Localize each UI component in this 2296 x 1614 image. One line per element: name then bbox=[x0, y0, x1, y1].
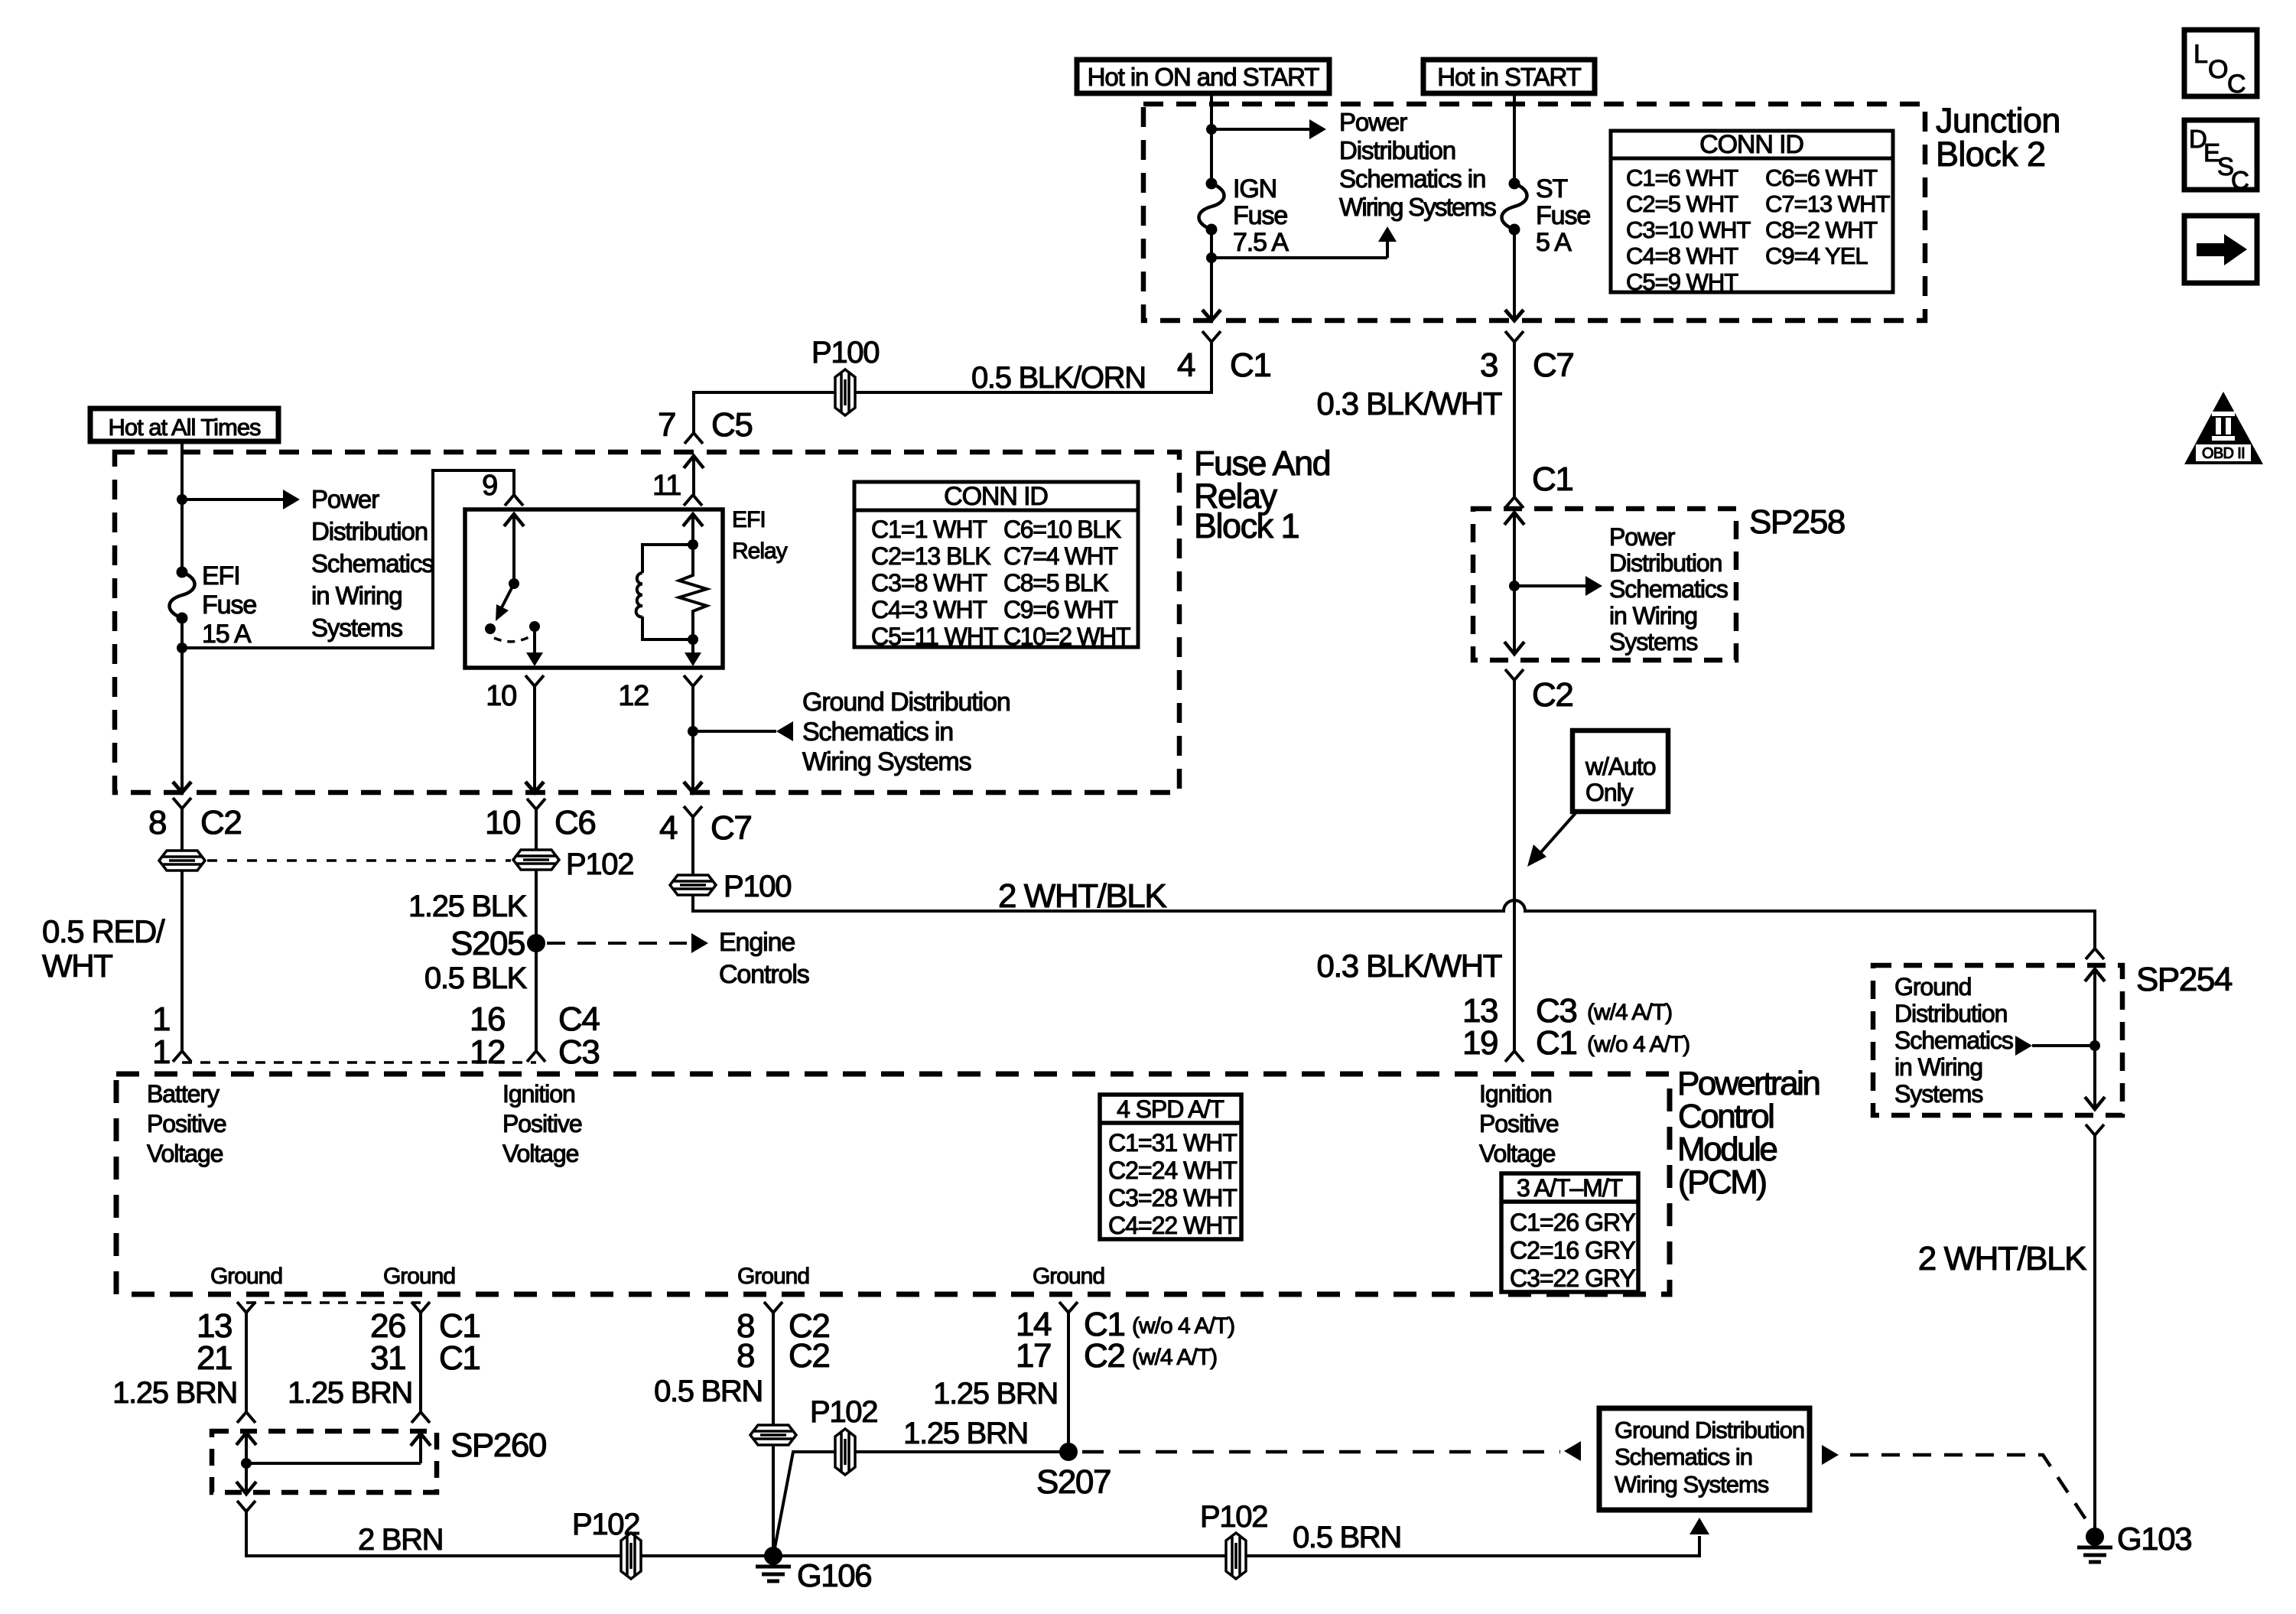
svg-text:P102: P102 bbox=[1200, 1500, 1267, 1534]
svg-text:3: 3 bbox=[1480, 347, 1498, 384]
svg-text:Schematics in: Schematics in bbox=[1339, 164, 1485, 193]
wire: EFI fuse output down to 8 C2 bbox=[180, 618, 184, 792]
dashed connector link P102-P102 bbox=[207, 859, 511, 862]
wire: 0.3 BLK/WHT from 3 C7 down to SP258 bbox=[1513, 342, 1516, 497]
svg-text:EFI: EFI bbox=[202, 561, 240, 591]
dashed arrow: S205 to Engine Controls bbox=[547, 942, 687, 945]
connector face dashed line (PCM C3/C4) bbox=[182, 1061, 536, 1064]
svg-text:C4=22 WHT: C4=22 WHT bbox=[1108, 1212, 1237, 1239]
svg-text:Schematics in: Schematics in bbox=[802, 718, 953, 747]
wire through SP260 (left) bbox=[236, 1433, 256, 1445]
svg-text:Block 1: Block 1 bbox=[1194, 506, 1299, 545]
inline connector P102 (ignition wire) bbox=[513, 850, 559, 870]
svg-text:2 WHT/BLK: 2 WHT/BLK bbox=[998, 877, 1166, 915]
relay switch pivot bbox=[509, 578, 519, 589]
svg-text:2 WHT/BLK: 2 WHT/BLK bbox=[1918, 1240, 2086, 1277]
svg-text:C3=8 WHT: C3=8 WHT bbox=[871, 569, 987, 597]
wire: pin 12 down to block exit (4 C7) bbox=[691, 686, 694, 792]
PCM ground pin 8/8 C2 connector bbox=[764, 1302, 782, 1313]
dashed wire: ground distribution box to G103 bbox=[1850, 1455, 2092, 1528]
inline connector P102 (battery wire) bbox=[159, 851, 205, 870]
feed box: Hot in START bbox=[1423, 60, 1595, 93]
svg-text:G103: G103 bbox=[2117, 1521, 2191, 1557]
connector pin 4 C7 bbox=[684, 806, 702, 817]
svg-text:Fuse: Fuse bbox=[1536, 201, 1590, 230]
svg-text:(w/4 A/T): (w/4 A/T) bbox=[1132, 1345, 1217, 1370]
svg-text:in Wiring: in Wiring bbox=[1609, 602, 1697, 630]
svg-text:12: 12 bbox=[618, 680, 649, 712]
connector pin 12 of EFI relay bbox=[684, 675, 702, 686]
feed box: Hot in ON and START bbox=[1077, 60, 1329, 93]
inline connector P100 (0.5 BLK/ORN) bbox=[835, 369, 855, 415]
connector pin 7 C5 bbox=[685, 433, 703, 444]
svg-text:Distribution: Distribution bbox=[1609, 549, 1722, 577]
connector pin 8 C2 bbox=[173, 798, 191, 809]
svg-text:Power: Power bbox=[1339, 108, 1407, 136]
svg-text:C2=13 BLK: C2=13 BLK bbox=[871, 542, 990, 570]
svg-text:C8=5 BLK: C8=5 BLK bbox=[1003, 569, 1108, 597]
wire: 2 BRN from SP260 to G106 bbox=[246, 1511, 773, 1556]
svg-text:OBD II: OBD II bbox=[2202, 445, 2245, 462]
svg-text:C3=22 GRY: C3=22 GRY bbox=[1510, 1264, 1636, 1292]
svg-text:0.5 BRN: 0.5 BRN bbox=[1293, 1521, 1401, 1554]
svg-text:S205: S205 bbox=[450, 925, 525, 962]
wire exit arrow at 4 C7 bbox=[684, 782, 702, 792]
relay switch output wire to pin 10 bbox=[533, 626, 536, 664]
wire: 1.25 BRN ground (26/31) bbox=[419, 1313, 422, 1412]
svg-text:P102: P102 bbox=[572, 1508, 639, 1541]
wire through SP254 bbox=[2085, 969, 2105, 981]
svg-text:Block 2: Block 2 bbox=[1936, 135, 2045, 174]
svg-text:Schematics in: Schematics in bbox=[1615, 1443, 1752, 1470]
svg-text:P100: P100 bbox=[811, 336, 879, 369]
svg-text:Systems: Systems bbox=[311, 613, 402, 642]
svg-text:Ground: Ground bbox=[210, 1264, 282, 1289]
wire exits block at 8 C2 bbox=[173, 782, 191, 792]
wire: 7 C5 into fuse and relay block 1 (to relay pin 11) bbox=[684, 456, 704, 468]
svg-text:3 A/T–M/T: 3 A/T–M/T bbox=[1517, 1174, 1623, 1202]
node: ground distribution branch dot bbox=[688, 726, 698, 737]
connector below SP254 bbox=[2086, 1124, 2104, 1135]
svg-text:C1=26 GRY: C1=26 GRY bbox=[1510, 1209, 1636, 1236]
splice SP260 dashed box bbox=[212, 1431, 437, 1492]
wire: 1.25 BRN from S207 left to G106 (via P102) bbox=[773, 1452, 1068, 1556]
svg-text:12: 12 bbox=[470, 1033, 505, 1071]
svg-text:0.3 BLK/WHT: 0.3 BLK/WHT bbox=[1317, 386, 1502, 421]
wire: ST fuse output exits junction block 2 bbox=[1513, 229, 1516, 321]
svg-text:C2=16 GRY: C2=16 GRY bbox=[1510, 1237, 1636, 1264]
table: 4 SPD A/T bbox=[1100, 1095, 1241, 1239]
svg-text:0.5 BLK/ORN: 0.5 BLK/ORN bbox=[971, 361, 1146, 395]
svg-text:2 BRN: 2 BRN bbox=[358, 1523, 443, 1557]
wire: IGN feed from Hot in ON and START bbox=[1210, 93, 1213, 184]
svg-text:Wiring Systems: Wiring Systems bbox=[1339, 193, 1496, 221]
relay resistor bbox=[679, 545, 707, 639]
svg-text:C3: C3 bbox=[558, 1033, 599, 1071]
splice SP258 dashed box bbox=[1473, 509, 1736, 660]
dashed wire: S207 to ground distribution box bbox=[1082, 1450, 1560, 1454]
svg-text:C1=6 WHT: C1=6 WHT bbox=[1626, 164, 1738, 191]
svg-text:Hot in START: Hot in START bbox=[1437, 63, 1581, 91]
svg-text:9: 9 bbox=[482, 470, 497, 502]
svg-text:G106: G106 bbox=[797, 1557, 871, 1593]
wire pin 11 into relay bbox=[683, 514, 703, 526]
svg-text:C7: C7 bbox=[1533, 347, 1573, 384]
svg-text:C4=3 WHT: C4=3 WHT bbox=[871, 596, 987, 623]
svg-text:Distribution: Distribution bbox=[311, 517, 428, 545]
svg-text:19: 19 bbox=[1462, 1024, 1498, 1062]
icon: arrow box bbox=[2184, 216, 2257, 283]
node: SP254 splice dot bbox=[2089, 1040, 2100, 1051]
inline connector P102 (0.5 BRN) bbox=[750, 1425, 796, 1445]
svg-text:IGN: IGN bbox=[1233, 174, 1276, 203]
svg-text:1: 1 bbox=[152, 1033, 170, 1071]
svg-text:Hot in ON and START: Hot in ON and START bbox=[1088, 63, 1320, 91]
wire: 2 WHT/BLK down to G103 bbox=[2093, 1135, 2096, 1537]
svg-text:Hot at All Times: Hot at All Times bbox=[108, 414, 261, 441]
junction block 2 dashed outline bbox=[1143, 104, 1925, 321]
wire: pin 10 down, exits block (to C6) bbox=[533, 686, 536, 792]
svg-text:(w/4 A/T): (w/4 A/T) bbox=[1587, 1000, 1672, 1025]
svg-text:10: 10 bbox=[486, 680, 516, 712]
svg-text:C7: C7 bbox=[711, 809, 751, 847]
svg-text:Schematics: Schematics bbox=[311, 549, 434, 578]
svg-text:O: O bbox=[2208, 55, 2227, 84]
arrow from w/Auto Only to wire bbox=[1540, 813, 1576, 853]
wire: 0.5 RED/WHT battery positive to PCM bbox=[180, 809, 184, 1051]
svg-text:1.25 BRN: 1.25 BRN bbox=[903, 1417, 1028, 1450]
svg-text:WHT: WHT bbox=[42, 948, 112, 984]
conn id table: fuse and relay block 1 bbox=[854, 482, 1138, 647]
svg-text:Wiring Systems: Wiring Systems bbox=[802, 747, 971, 776]
wire: 1.25 BRN ground (13/21) bbox=[245, 1313, 248, 1412]
wire: IGN exit of junction block 2 bbox=[1210, 258, 1213, 321]
connector C1 into SP258 bbox=[1505, 497, 1524, 508]
wire: pin 12 to relay box edge bbox=[691, 639, 694, 664]
svg-text:C2: C2 bbox=[200, 804, 241, 841]
svg-text:Systems: Systems bbox=[1894, 1080, 1982, 1108]
fuse: EFI Fuse 15 A bbox=[177, 567, 188, 578]
svg-text:Voltage: Voltage bbox=[1479, 1140, 1556, 1167]
svg-text:SP254: SP254 bbox=[2136, 961, 2233, 998]
svg-text:Power: Power bbox=[311, 485, 379, 513]
svg-text:Ground: Ground bbox=[1033, 1264, 1104, 1289]
svg-text:C2=24 WHT: C2=24 WHT bbox=[1108, 1157, 1237, 1184]
svg-text:Only: Only bbox=[1585, 779, 1634, 806]
connector pin 10 C6 bbox=[527, 799, 545, 809]
svg-text:C: C bbox=[2227, 70, 2246, 99]
annotation arrow: power distribution schematics (EFI) bbox=[182, 498, 285, 501]
svg-text:(PCM): (PCM) bbox=[1678, 1163, 1766, 1201]
svg-text:C2: C2 bbox=[789, 1337, 829, 1375]
ground G103 bbox=[2086, 1528, 2104, 1546]
svg-text:C2: C2 bbox=[1532, 676, 1572, 714]
PCM ground pin 26/31 connector bbox=[411, 1302, 430, 1313]
connector pin 11 of EFI relay bbox=[684, 495, 702, 506]
svg-text:Control: Control bbox=[1678, 1098, 1773, 1135]
wire: battery feed from Hot at All Times bbox=[180, 441, 184, 572]
svg-text:0.5 RED/: 0.5 RED/ bbox=[42, 913, 165, 949]
svg-text:1.25 BRN: 1.25 BRN bbox=[288, 1376, 412, 1410]
svg-text:C1: C1 bbox=[1532, 460, 1572, 498]
svg-text:Voltage: Voltage bbox=[147, 1140, 223, 1167]
svg-text:P102: P102 bbox=[566, 848, 633, 881]
svg-text:(w/o 4 A/T): (w/o 4 A/T) bbox=[1587, 1032, 1689, 1057]
svg-text:7: 7 bbox=[658, 406, 675, 444]
svg-text:C2=5 WHT: C2=5 WHT bbox=[1626, 190, 1738, 217]
feed box: Hot at All Times bbox=[90, 408, 278, 441]
relay switch output contact bbox=[529, 621, 540, 632]
svg-text:4 SPD A/T: 4 SPD A/T bbox=[1117, 1095, 1224, 1123]
svg-text:C4: C4 bbox=[558, 1001, 600, 1038]
fuse: ST Fuse 5 A bbox=[1509, 178, 1520, 190]
relay switch contact (NC) bbox=[485, 623, 496, 634]
svg-text:21: 21 bbox=[197, 1339, 232, 1377]
svg-text:CONN ID: CONN ID bbox=[1699, 130, 1803, 159]
svg-text:C2: C2 bbox=[1084, 1337, 1124, 1375]
svg-text:C7=13 WHT: C7=13 WHT bbox=[1765, 190, 1890, 217]
svg-text:1: 1 bbox=[152, 1001, 170, 1038]
node: SP258 splice dot bbox=[1509, 581, 1520, 591]
svg-text:1.25 BRN: 1.25 BRN bbox=[933, 1377, 1058, 1411]
svg-text:C: C bbox=[2231, 166, 2249, 194]
svg-text:in Wiring: in Wiring bbox=[1894, 1053, 1982, 1081]
svg-text:C1: C1 bbox=[439, 1339, 480, 1377]
icon: LOC box bbox=[2184, 30, 2257, 96]
wire: 2 WHT/BLK from 4 C7 to SP254 bbox=[693, 817, 2095, 949]
inline connector P102 (1.25 BRN) bbox=[835, 1429, 855, 1475]
svg-text:Distribution: Distribution bbox=[1894, 1000, 2007, 1027]
svg-text:4: 4 bbox=[1177, 347, 1195, 384]
svg-text:1.25 BLK: 1.25 BLK bbox=[408, 890, 528, 923]
svg-text:7.5 A: 7.5 A bbox=[1233, 228, 1289, 257]
connector into SP254 bbox=[2086, 949, 2104, 959]
relay switch common wire (pin 9) bbox=[504, 514, 524, 526]
svg-text:C1=1 WHT: C1=1 WHT bbox=[871, 516, 987, 543]
connector pin 4 C1 bbox=[1202, 331, 1221, 342]
svg-text:0.3 BLK/WHT: 0.3 BLK/WHT bbox=[1317, 948, 1502, 984]
callout box: w/Auto Only bbox=[1572, 731, 1668, 812]
svg-text:S207: S207 bbox=[1036, 1463, 1111, 1501]
relay coil bbox=[642, 545, 693, 573]
svg-text:P102: P102 bbox=[810, 1395, 877, 1429]
splice S207 bbox=[1059, 1443, 1078, 1461]
connector pin 3 C7 bbox=[1505, 331, 1524, 342]
svg-text:Ground Distribution: Ground Distribution bbox=[802, 688, 1010, 717]
svg-text:Fuse: Fuse bbox=[1233, 201, 1287, 230]
wire: 0.5 BLK/ORN from pin 4 C1 to pin 7 C5 bbox=[694, 342, 1211, 433]
svg-text:17: 17 bbox=[1016, 1337, 1051, 1375]
svg-text:0.5 BRN: 0.5 BRN bbox=[654, 1375, 763, 1408]
svg-text:ST: ST bbox=[1536, 174, 1568, 203]
PCM ground pin 13/21 connector bbox=[237, 1302, 255, 1313]
svg-text:w/Auto: w/Auto bbox=[1585, 753, 1656, 780]
svg-text:8: 8 bbox=[737, 1337, 754, 1375]
annotation arrow: ground distribution schematics (SP254) bbox=[2015, 1036, 2032, 1056]
svg-text:Wiring Systems: Wiring Systems bbox=[1615, 1471, 1769, 1498]
svg-text:CONN ID: CONN ID bbox=[944, 482, 1048, 511]
svg-text:Ignition: Ignition bbox=[502, 1080, 575, 1108]
svg-text:C1: C1 bbox=[1536, 1024, 1576, 1062]
fuse: IGN Fuse 7.5 A bbox=[1206, 178, 1218, 190]
svg-text:11: 11 bbox=[652, 470, 681, 502]
svg-text:C5=11 WHT: C5=11 WHT bbox=[871, 623, 998, 650]
connector C2 below SP258 bbox=[1505, 669, 1524, 680]
ground distribution schematics box bbox=[1599, 1408, 1810, 1510]
PCM ground pin 14/17 connector bbox=[1059, 1302, 1078, 1313]
svg-text:C5: C5 bbox=[711, 406, 752, 444]
node: branch dot to relay pin 9 bbox=[177, 643, 187, 653]
splice SP254 dashed box bbox=[1873, 965, 2122, 1115]
svg-text:C6: C6 bbox=[554, 804, 595, 841]
svg-text:Schematics: Schematics bbox=[1894, 1027, 2013, 1054]
svg-text:8: 8 bbox=[148, 804, 166, 841]
inline connector P102 (bottom 0.5 BRN) bbox=[1226, 1533, 1246, 1579]
wire: 0.5 BRN ground (8/8) bbox=[772, 1313, 775, 1556]
svg-text:Relay: Relay bbox=[732, 539, 788, 564]
svg-text:16: 16 bbox=[470, 1001, 505, 1038]
svg-text:Ground Distribution: Ground Distribution bbox=[1615, 1417, 1804, 1443]
svg-text:(w/o 4 A/T): (w/o 4 A/T) bbox=[1132, 1313, 1234, 1339]
table: 3 A/T-M/T bbox=[1501, 1173, 1638, 1292]
splice S205 bbox=[527, 934, 545, 952]
svg-text:31: 31 bbox=[370, 1339, 405, 1377]
fuse and relay block 1 dashed outline bbox=[115, 452, 1179, 792]
svg-text:Fuse: Fuse bbox=[202, 591, 256, 620]
wire: 0.5 BRN from G106 to ground distribution box bbox=[773, 1536, 1699, 1556]
svg-text:Schematics: Schematics bbox=[1609, 575, 1728, 603]
svg-text:Positive: Positive bbox=[502, 1110, 582, 1137]
node: battery feed branch dot bbox=[177, 494, 187, 505]
arrow up into ground distribution box bbox=[1689, 1518, 1709, 1534]
svg-text:C3=28 WHT: C3=28 WHT bbox=[1108, 1184, 1237, 1212]
inline connector P100 (2 WHT/BLK) bbox=[670, 875, 716, 895]
svg-text:C1=31 WHT: C1=31 WHT bbox=[1108, 1129, 1237, 1157]
svg-text:SP260: SP260 bbox=[450, 1427, 546, 1464]
annotation arrow: to Power Distribution Schematics (JB2) bbox=[1211, 128, 1311, 131]
connector pin 10 of EFI relay bbox=[525, 675, 544, 686]
svg-text:Ground: Ground bbox=[1894, 973, 1971, 1001]
connector below SP260 bbox=[237, 1501, 255, 1511]
svg-text:C9=4 YEL: C9=4 YEL bbox=[1765, 242, 1868, 269]
connector pin 9 of EFI relay bbox=[505, 495, 523, 506]
arrow out of ground distribution box (right) bbox=[1822, 1445, 1839, 1465]
annotation arrow: power distribution schematics (SP258) bbox=[1514, 584, 1585, 587]
node: branch dot to schematics arrow bbox=[1206, 252, 1217, 263]
wire: 0.3 BLK/WHT from SP258 to PCM pin 13/19 bbox=[1513, 680, 1516, 1051]
svg-text:EFI: EFI bbox=[732, 507, 766, 532]
svg-text:Positive: Positive bbox=[1479, 1110, 1559, 1137]
svg-text:C1: C1 bbox=[1230, 347, 1270, 384]
svg-text:Controls: Controls bbox=[719, 960, 809, 989]
svg-text:C5=9 WHT: C5=9 WHT bbox=[1626, 268, 1738, 295]
svg-text:5 A: 5 A bbox=[1536, 228, 1572, 257]
node: IGN feed branch dot bbox=[1206, 124, 1217, 135]
wire: IGN fuse output to pin 4 C1 bbox=[1210, 229, 1213, 258]
relay switch contact arc (dashed) bbox=[494, 636, 532, 642]
inline connector P102 (2 BRN) bbox=[621, 1533, 641, 1579]
svg-text:C10=2 WHT: C10=2 WHT bbox=[1003, 623, 1130, 650]
wire: ignition feed C6 to PCM 16 C4 / 12 C3 bbox=[535, 809, 538, 1051]
node: coil/resistor bottom junction bbox=[688, 634, 698, 645]
svg-text:C9=6 WHT: C9=6 WHT bbox=[1003, 596, 1117, 623]
svg-text:Distribution: Distribution bbox=[1339, 136, 1455, 164]
svg-text:C6=6 WHT: C6=6 WHT bbox=[1765, 164, 1878, 191]
svg-text:Voltage: Voltage bbox=[502, 1140, 579, 1167]
annotation arrow: up arrow into schematics text bbox=[1211, 256, 1387, 259]
svg-text:Ground: Ground bbox=[383, 1264, 455, 1289]
node: coil/resistor top junction bbox=[688, 539, 698, 550]
svg-text:C4=8 WHT: C4=8 WHT bbox=[1626, 242, 1738, 269]
svg-text:0.5 BLK: 0.5 BLK bbox=[424, 962, 528, 995]
wire: ST feed from Hot in START bbox=[1513, 93, 1516, 184]
svg-text:Powertrain: Powertrain bbox=[1677, 1065, 1819, 1102]
svg-text:C8=2 WHT: C8=2 WHT bbox=[1765, 216, 1878, 243]
conn id table: junction block 2 bbox=[1611, 131, 1893, 292]
icon: DESC box bbox=[2184, 120, 2257, 190]
SP260 branch to 26/31 wire bbox=[246, 1462, 421, 1465]
connector face dashed line (13/26) bbox=[246, 1301, 421, 1304]
annotation arrow: ground distribution schematics (relay) bbox=[693, 730, 776, 733]
svg-text:Ground: Ground bbox=[737, 1264, 809, 1289]
svg-text:C7=4 WHT: C7=4 WHT bbox=[1003, 542, 1117, 570]
EFI relay box bbox=[465, 509, 723, 668]
svg-text:Power: Power bbox=[1609, 523, 1676, 551]
arrow into ground distribution box (left) bbox=[1564, 1441, 1581, 1461]
svg-text:C3=10 WHT: C3=10 WHT bbox=[1626, 216, 1751, 243]
svg-text:Module: Module bbox=[1677, 1131, 1777, 1168]
svg-text:Engine: Engine bbox=[719, 928, 795, 957]
svg-text:L: L bbox=[2194, 40, 2207, 69]
icon: OBD II triangle bbox=[2184, 392, 2263, 464]
wire: 1.25 BRN ground (14/17) to S207 bbox=[1067, 1313, 1070, 1452]
svg-text:4: 4 bbox=[659, 809, 678, 847]
svg-text:Battery: Battery bbox=[147, 1080, 220, 1108]
wire through SP258 bbox=[1504, 513, 1524, 525]
svg-text:C6=10 BLK: C6=10 BLK bbox=[1003, 516, 1121, 543]
ground G106 bbox=[764, 1547, 782, 1565]
svg-text:Systems: Systems bbox=[1609, 628, 1697, 656]
svg-text:Ignition: Ignition bbox=[1479, 1080, 1552, 1108]
wire: branch to relay pin 9 bbox=[182, 470, 514, 648]
powertrain control module dashed box bbox=[116, 1074, 1670, 1294]
svg-text:SP258: SP258 bbox=[1749, 503, 1845, 541]
relay switch lever with arrow bbox=[500, 584, 514, 610]
svg-text:15 A: 15 A bbox=[202, 620, 252, 649]
svg-text:in Wiring: in Wiring bbox=[311, 581, 402, 610]
node: SP260 splice dot bbox=[241, 1458, 252, 1469]
svg-text:P100: P100 bbox=[724, 870, 791, 903]
svg-text:1.25 BRN: 1.25 BRN bbox=[112, 1376, 237, 1410]
svg-text:10: 10 bbox=[485, 804, 520, 841]
svg-text:Positive: Positive bbox=[147, 1110, 226, 1137]
